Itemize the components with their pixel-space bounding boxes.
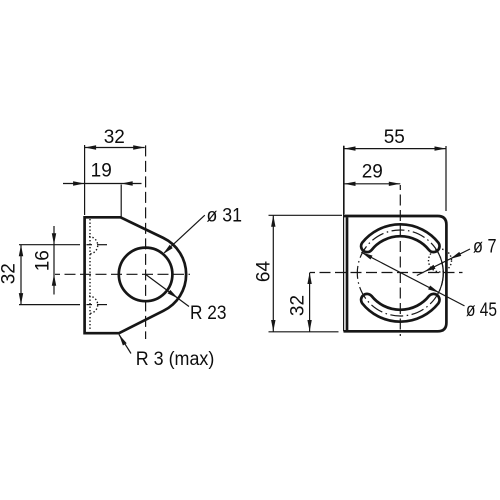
svg-text:16: 16 (33, 250, 54, 271)
svg-text:ø 31: ø 31 (207, 206, 243, 227)
svg-text:ø 45: ø 45 (466, 300, 497, 321)
svg-text:32: 32 (287, 295, 308, 316)
svg-text:R 23: R 23 (190, 303, 227, 324)
svg-text:32: 32 (104, 127, 125, 148)
svg-text:55: 55 (384, 127, 405, 148)
svg-text:64: 64 (253, 261, 274, 283)
svg-text:32: 32 (0, 263, 20, 284)
svg-text:ø 7: ø 7 (473, 237, 497, 258)
svg-text:29: 29 (362, 162, 383, 183)
svg-text:19: 19 (91, 161, 112, 182)
svg-text:R 3 (max): R 3 (max) (136, 349, 215, 370)
